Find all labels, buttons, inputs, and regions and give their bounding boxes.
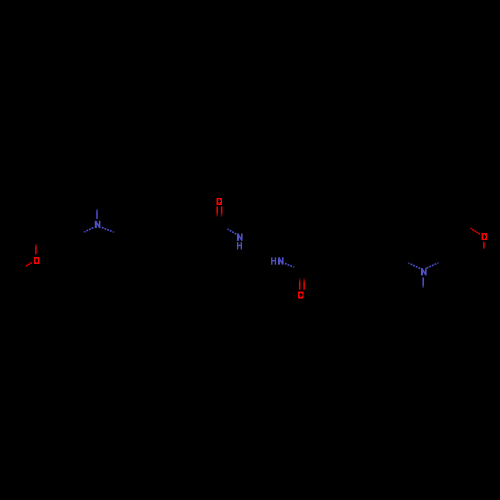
atom N4 (right tertiary amine nitrogen label) [421, 268, 427, 275]
atom N3 (amide 2 nitrogen label) [278, 257, 284, 264]
atom N1 (left tertiary amine nitrogen label) [95, 221, 101, 228]
wire C-N amide 1 bond stub (blue half) [226, 228, 236, 234]
atom N2 (amide 1 nitrogen label) [237, 234, 243, 241]
wire O4-C chain bond stub (red half, up-left) [470, 228, 480, 234]
atom O2 (amide 1 carbonyl oxygen label) [217, 198, 222, 205]
wire O4-CH3 methyl bond stub (red half, vertical down) [483, 242, 485, 249]
atom O1 (left methoxy oxygen label) [34, 257, 39, 264]
atom O4 (right methoxy oxygen label) [482, 233, 487, 240]
wire N4 bond stub up-right (blue half) [427, 263, 439, 269]
wire C=O double bond of amide 1 (two red half-lines) [217, 206, 221, 217]
atom H on N3 (amide 2 N-H hydrogen label) [271, 257, 276, 264]
wire C-N amide 2 bond stub (blue half) [285, 263, 295, 267]
wire O1-C chain bond stub (red half, vertical) [35, 244, 37, 254]
atom H on N2 (amide 1 N-H hydrogen label) [237, 242, 242, 249]
atom O3 (amide 2 carbonyl oxygen label) [298, 291, 303, 298]
wire N4 bond stub up-left (blue half) [408, 263, 420, 269]
wire N1 bond stub down-left (blue half) [83, 228, 94, 233]
wire O1-CH3 methyl bond stub (red half, down-left) [25, 263, 31, 267]
wire N1 bond stub down-right (blue half) [102, 227, 115, 232]
wire C=O double bond of amide 2 (two red half-lines) [300, 278, 304, 290]
wire N1-CH3 methyl bond stub (blue half, vertical up) [96, 209, 98, 219]
wire N4-CH3 methyl bond stub (blue half, vertical down) [422, 277, 424, 287]
